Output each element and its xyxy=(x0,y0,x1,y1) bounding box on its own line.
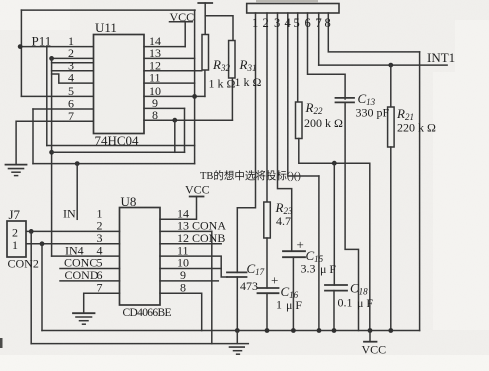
ground GND1 xyxy=(6,164,27,166)
wire INT1 xyxy=(319,64,447,66)
wire pin1-lineA drop xyxy=(46,47,48,146)
resistor R21 xyxy=(388,107,395,147)
capacitor C17 xyxy=(227,271,247,273)
wire U8 pin14 VCC xyxy=(160,197,197,220)
node bus VCC xyxy=(368,328,373,333)
wire U8 pin8 xyxy=(160,293,202,330)
wire U8 pin7 to ground xyxy=(84,293,120,313)
resistor R31 lead bottom xyxy=(231,78,233,120)
wire mid vertical 2 xyxy=(318,176,320,331)
wire VCC to R31 xyxy=(205,16,233,41)
wire U8 pin9 xyxy=(160,280,218,282)
wire pin2 net vertical xyxy=(51,58,53,256)
paper light zones xyxy=(0,355,489,371)
wire pin8 drop to line B xyxy=(174,120,176,152)
node pin10 net xyxy=(192,94,197,99)
wire U8 pin3 from J7 xyxy=(26,243,120,245)
node bus C18 xyxy=(332,328,337,333)
wire pin2 U11 xyxy=(51,57,93,59)
resistor R32 lead bottom xyxy=(204,70,206,96)
node bus mid xyxy=(317,328,322,333)
node bus C15 xyxy=(291,328,296,333)
wire pin12 U11 xyxy=(144,70,202,72)
node INT1-R21 xyxy=(388,63,393,68)
node line B xyxy=(49,150,54,155)
wire pin8 U11 xyxy=(144,119,232,121)
connector J7 box xyxy=(7,221,26,257)
power VCC2 bar xyxy=(190,196,204,198)
wire pin6 down xyxy=(32,109,34,164)
wire conn pin2 xyxy=(266,13,268,202)
wire ground bus2 xyxy=(31,343,248,345)
ground GND2 xyxy=(73,312,95,314)
wire pin10 U11 xyxy=(144,95,205,97)
wire C18 top lead xyxy=(333,163,335,285)
wire VCC bus1 xyxy=(42,330,420,332)
wire pin13 U11 xyxy=(144,57,195,59)
wire C13 bottom xyxy=(345,102,358,330)
wire line A xyxy=(47,145,195,147)
wire bracket above pin3 xyxy=(52,62,94,64)
node bus C17 xyxy=(235,328,240,333)
wire U8 pin11 xyxy=(160,256,227,277)
wire conn pin5 xyxy=(297,13,299,102)
node line C / IN drop xyxy=(75,161,80,166)
IC U11 xyxy=(94,35,145,134)
wire VCC T stem xyxy=(204,3,206,35)
wire VCC1 drop xyxy=(184,22,186,47)
wire U8 pin2 from J7 xyxy=(26,230,120,232)
node pin1-P11 xyxy=(18,44,23,49)
capacitor C16 xyxy=(258,287,279,289)
node J7 pin1 xyxy=(40,241,45,246)
wire R23 bottom to C16 xyxy=(266,238,268,288)
wire P11 to pin5 xyxy=(21,95,93,97)
power VCC top T xyxy=(198,2,212,4)
wire C15 bottom xyxy=(292,257,294,330)
wire U8 pin6 COND xyxy=(60,280,120,282)
power VCC1 label underline xyxy=(170,21,193,23)
resistor R32 xyxy=(202,35,209,71)
wire C16 bottom xyxy=(266,293,268,330)
wire U8 pin10 xyxy=(160,268,221,270)
node bus C16 xyxy=(265,328,270,333)
wire U8 pin12 CONB xyxy=(160,243,221,245)
capacitor C18 xyxy=(325,284,347,286)
wire conn pin4 xyxy=(288,13,319,176)
node C18 tap xyxy=(332,161,337,166)
resistor R23 xyxy=(264,202,271,238)
wire U8 pin5 CONC xyxy=(60,268,120,270)
wire right edge vertical xyxy=(419,52,421,331)
wire line B xyxy=(52,151,185,153)
node pin2 xyxy=(49,56,54,61)
wire pin11 U11 xyxy=(144,82,195,84)
wire conn pin8 xyxy=(328,13,419,52)
wire pin9 drop xyxy=(184,108,186,152)
power VCC3 stem xyxy=(369,331,371,342)
wire conn pin7 INT1 line xyxy=(318,13,320,65)
wire CONA drop xyxy=(211,231,213,343)
node J7 pin2 xyxy=(29,229,34,234)
resistor R31 xyxy=(229,41,235,79)
capacitor C15 xyxy=(283,250,305,252)
wire P11 vertical xyxy=(20,10,22,96)
ground GND3 xyxy=(230,346,245,348)
IC U8 xyxy=(120,208,161,306)
wire pin9 U11 xyxy=(144,107,185,109)
wire line C xyxy=(33,163,195,165)
wire IN4 corner to U8 pin4 xyxy=(52,255,120,257)
capacitor C13 xyxy=(336,97,355,99)
wire IN drop to U8 pin1 xyxy=(76,164,78,220)
resistor R22 xyxy=(296,102,303,139)
connector P1 box xyxy=(247,4,339,14)
wire R22 bottom xyxy=(299,139,370,331)
wire conn pin1 xyxy=(237,13,255,272)
ground GND3 stem xyxy=(236,331,238,344)
wire J7 pin1 drop xyxy=(41,244,43,331)
wire conn pin3 xyxy=(278,13,292,251)
wire J7 pin2 drop xyxy=(30,231,32,343)
wire U8 pin13 CONA xyxy=(160,230,212,232)
resistor R21 lead top xyxy=(390,65,392,107)
scan edge mark bottom-left xyxy=(0,338,3,348)
wire pin1 U11 xyxy=(20,46,94,48)
wire pin4 jog xyxy=(52,74,94,83)
wire pin6 U11 xyxy=(33,108,94,110)
clipped label above connector xyxy=(256,0,318,2)
wire C18 bottom xyxy=(333,291,335,331)
wire C17 bottom xyxy=(236,277,238,331)
node pin8 xyxy=(172,118,177,123)
wire P11 top loop xyxy=(21,9,195,11)
wire R21 bottom xyxy=(390,147,392,331)
power VCC3 bar xyxy=(364,341,377,343)
wire conn pin6 xyxy=(308,13,346,99)
node bus R21 xyxy=(388,328,393,333)
wire pin3 U11 xyxy=(52,70,94,72)
wire pin7 U11 to ground xyxy=(16,121,93,164)
wire pin14 U11 xyxy=(144,46,185,48)
wire net vertical right of U11 xyxy=(194,10,196,164)
